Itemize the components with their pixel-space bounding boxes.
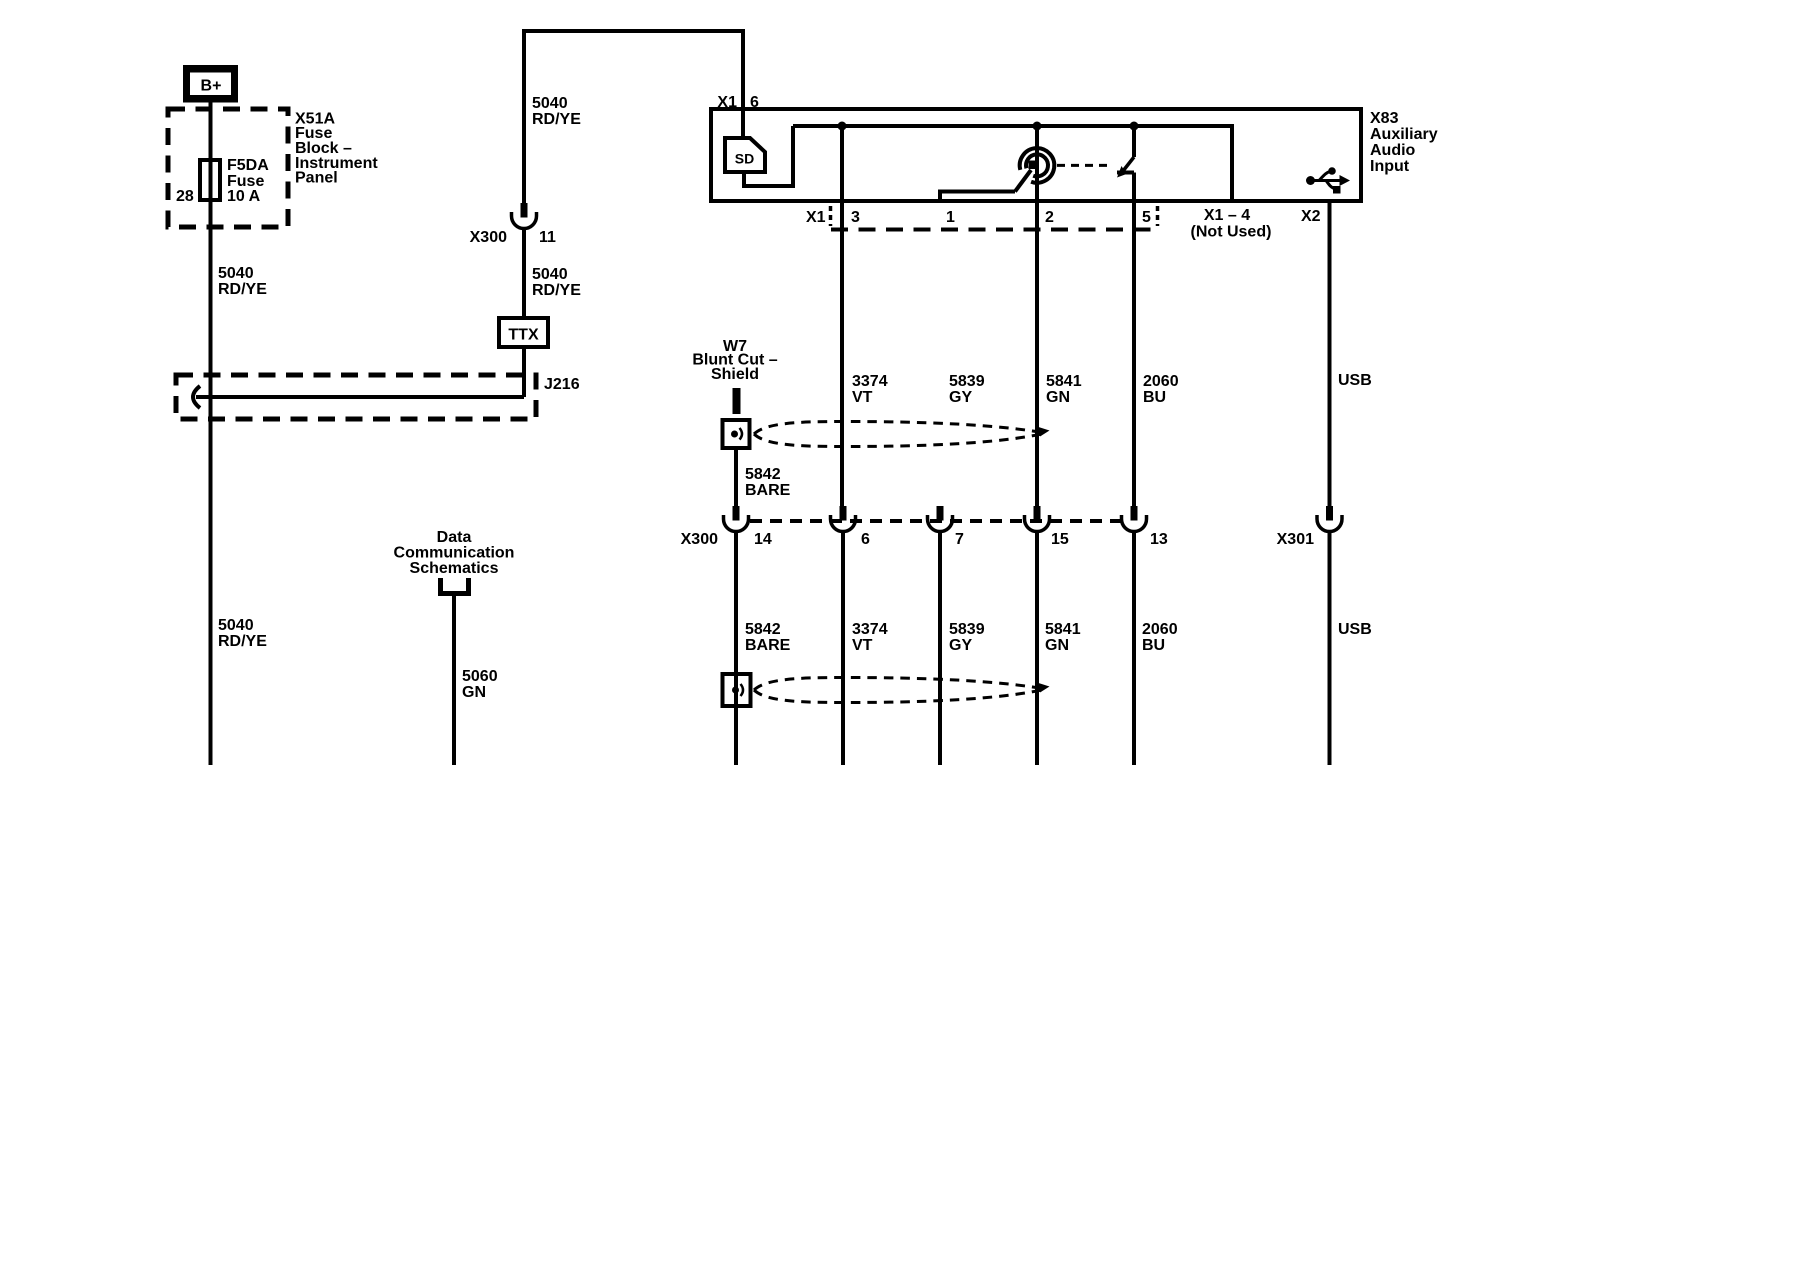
svg-text:X1: X1 [806, 209, 826, 226]
jack detect linkage dashed [1057, 164, 1112, 167]
svg-text:BU: BU [1142, 637, 1165, 654]
svg-text:Panel: Panel [295, 170, 338, 187]
wire 3374 VT lower [841, 532, 845, 766]
switch lever [1123, 157, 1134, 171]
svg-text:5060: 5060 [462, 668, 498, 685]
wire 2060 BU lower [1132, 532, 1136, 766]
svg-text:7: 7 [955, 531, 964, 548]
shield drain connection box (upper) [723, 420, 750, 448]
audio jack tip square [1029, 161, 1038, 170]
svg-text:VT: VT [852, 389, 873, 406]
svg-text:2060: 2060 [1143, 373, 1179, 390]
svg-text:Data: Data [437, 529, 472, 546]
svg-text:Schematics: Schematics [410, 560, 499, 577]
audio jack middle ring [1026, 154, 1048, 176]
wire TTX to splice J216 [522, 347, 526, 397]
fuse block X51A dashed box [168, 109, 288, 227]
svg-text:GN: GN [1046, 389, 1070, 406]
connector X300 pin 7 [1025, 506, 1050, 532]
inline device TTX [499, 318, 548, 347]
svg-text:RD/YE: RD/YE [532, 111, 581, 128]
svg-text:13: 13 [1150, 531, 1168, 548]
svg-text:X83: X83 [1370, 110, 1399, 127]
svg-text:RD/YE: RD/YE [218, 281, 267, 298]
svg-text:6: 6 [750, 94, 759, 111]
switch lever arrowhead [1117, 166, 1127, 178]
wire X83 X2 down to X301 [1328, 201, 1332, 506]
wire 5040 RD/YE below X300 [522, 229, 526, 319]
svg-text:X2: X2 [1301, 208, 1321, 225]
wire X83 pin 2 through jack down to X300 pin 7 [1035, 126, 1039, 506]
svg-text:GY: GY [949, 389, 972, 406]
svg-text:Shield: Shield [711, 366, 759, 383]
wire USB lower [1328, 532, 1332, 766]
connector X301 [1317, 506, 1342, 532]
off-page connector bracket [441, 578, 469, 594]
wire from SD card to internal bus [744, 126, 793, 186]
wire jack tip to pin 1 [940, 192, 1015, 203]
wire 5842 BARE lower [734, 532, 738, 766]
svg-text:5842: 5842 [745, 621, 781, 638]
wire X83 pin 3 down to X300 pin 6 [840, 126, 844, 506]
svg-text:28: 28 [176, 188, 194, 205]
internal bus wire [793, 126, 1232, 199]
wire 5040 RD/YE from B+ down to T11 pin 1 [209, 102, 213, 765]
svg-text:GN: GN [1045, 637, 1069, 654]
switch bottom contact [1117, 171, 1134, 175]
module X83 box [711, 109, 1361, 201]
svg-text:GY: GY [949, 637, 972, 654]
svg-text:3: 3 [851, 209, 860, 226]
connector X300 pin 15 [928, 506, 953, 532]
splice clip hook [193, 386, 200, 408]
splice wire to B+ feed [196, 395, 524, 399]
blunt cut stub W7 [733, 388, 741, 414]
svg-text:X1 – 4: X1 – 4 [1204, 207, 1250, 224]
switch fixed contact [1132, 126, 1136, 157]
pin group separator [1156, 206, 1160, 226]
svg-text:X300: X300 [470, 229, 507, 246]
svg-text:5842: 5842 [745, 466, 781, 483]
svg-text:X300: X300 [681, 531, 718, 548]
USB icon inside X83 [1306, 167, 1350, 193]
svg-text:RD/YE: RD/YE [532, 282, 581, 299]
svg-text:3374: 3374 [852, 373, 888, 390]
svg-text:5839: 5839 [949, 621, 985, 638]
shielding ellipse (upper) [754, 422, 1050, 447]
svg-text:J216: J216 [544, 376, 580, 393]
wire 5060 GN [452, 594, 456, 765]
svg-text:Auxiliary: Auxiliary [1370, 126, 1438, 143]
svg-text:5: 5 [1142, 209, 1151, 226]
wire 5842 BARE upper [734, 448, 738, 506]
svg-text:2: 2 [1045, 209, 1054, 226]
SD card icon [725, 138, 765, 172]
svg-text:11: 11 [539, 229, 556, 246]
svg-text:USB: USB [1338, 621, 1372, 638]
svg-text:3374: 3374 [852, 621, 888, 638]
svg-text:SD: SD [735, 151, 754, 167]
connector X300 pin 11 [512, 203, 537, 228]
svg-text:TTX: TTX [508, 327, 539, 344]
pin row dashed band [831, 228, 1157, 232]
junction at switch [1130, 122, 1139, 131]
svg-text:10 A: 10 A [227, 188, 261, 205]
shield drain connection box (lower) [723, 674, 751, 706]
wire 5040 RD/YE top run to X83 pin 6 [524, 31, 743, 203]
junction at pin 3 [838, 122, 847, 131]
svg-text:5839: 5839 [949, 373, 985, 390]
jack tip contact diagonal [1015, 170, 1031, 192]
svg-text:BARE: BARE [745, 637, 791, 654]
svg-text:5841: 5841 [1045, 621, 1081, 638]
svg-text:2060: 2060 [1142, 621, 1178, 638]
pin group separator [829, 206, 833, 226]
svg-text:X301: X301 [1277, 531, 1314, 548]
svg-text:5040: 5040 [532, 95, 568, 112]
svg-text:X1: X1 [717, 94, 737, 111]
junction at jack sleeve [1033, 122, 1042, 131]
wire 5841 GN lower [1035, 532, 1039, 766]
wire X83 pin 5 down to X300 pin 13 [1132, 173, 1136, 507]
svg-text:(Not Used): (Not Used) [1191, 224, 1272, 241]
svg-text:5841: 5841 [1046, 373, 1082, 390]
connector X300 pin 14 [724, 506, 749, 532]
svg-text:14: 14 [754, 531, 772, 548]
svg-text:15: 15 [1051, 531, 1069, 548]
svg-text:B+: B+ [201, 78, 222, 95]
connector row dashed link [750, 519, 1121, 523]
svg-text:RD/YE: RD/YE [218, 633, 267, 650]
svg-text:5040: 5040 [532, 266, 568, 283]
svg-text:5040: 5040 [218, 617, 254, 634]
svg-text:BU: BU [1143, 389, 1166, 406]
svg-text:F5DA: F5DA [227, 157, 269, 174]
svg-text:Communication: Communication [394, 545, 515, 562]
connector X300 pin 13 [1122, 506, 1147, 532]
svg-text:5040: 5040 [218, 265, 254, 282]
svg-text:BARE: BARE [745, 482, 791, 499]
svg-text:USB: USB [1338, 372, 1372, 389]
svg-text:1: 1 [946, 209, 955, 226]
svg-text:Input: Input [1370, 158, 1410, 175]
svg-text:GN: GN [462, 684, 486, 701]
svg-text:6: 6 [861, 531, 870, 548]
connector X300 pin 6 [831, 506, 856, 532]
svg-text:VT: VT [852, 637, 873, 654]
shielding ellipse (lower) [754, 678, 1050, 703]
audio jack outer ring [1020, 148, 1055, 183]
wire 5839 GY lower [938, 532, 942, 766]
svg-text:Audio: Audio [1370, 142, 1416, 159]
fuse F5DA [200, 160, 220, 200]
power terminal B+ [183, 65, 238, 103]
splice J216 dashed box [176, 375, 536, 419]
